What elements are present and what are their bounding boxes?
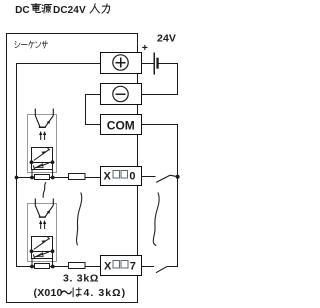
- LED D1b: [33, 163, 49, 169]
- resistor R2 (series 3.3k): [69, 174, 86, 180]
- wire: COM terminal to right rail: [142, 125, 178, 268]
- light arrows unit 2: [39, 220, 46, 229]
- terminal box +: [101, 53, 142, 74]
- wire: input row for X0: [16, 177, 100, 179]
- label: title "DC電源DC24V入力": [15, 3, 110, 16]
- terminal box COM: [101, 115, 142, 135]
- LED D2b: [33, 252, 49, 258]
- svg-text:3. 3kΩ: 3. 3kΩ: [63, 272, 99, 284]
- continuation squiggle middle (between input rows): [77, 193, 82, 246]
- LED D2a: [34, 237, 50, 250]
- switch S1 (X0 input): [141, 176, 155, 178]
- resistor R1 (parallel, under LED box): [35, 175, 50, 180]
- svg-text:+: +: [142, 42, 148, 54]
- svg-text:24V: 24V: [157, 33, 176, 45]
- wire: LED D2 mid tap: [32, 251, 53, 253]
- LED pair D1 box: [32, 148, 53, 170]
- LED pair D2 box: [32, 237, 53, 259]
- wire: internal rail from + terminal down left side: [17, 64, 101, 267]
- terminal box X0: [101, 167, 142, 186]
- wire: LED D2 box side extensions to row: [31, 259, 33, 267]
- wire: LED D1 box side extensions to row: [31, 170, 33, 178]
- phototransistor Q2: [35, 198, 53, 217]
- svg-text:COM: COM: [107, 119, 135, 133]
- junction dots row X0: [30, 176, 34, 180]
- wire: + terminal to battery: [141, 63, 154, 65]
- phototransistor Q1: [35, 109, 53, 128]
- light arrows unit 1: [39, 131, 46, 140]
- junction dots on LED D1 box sides: [30, 160, 34, 164]
- svg-text:X: X: [104, 171, 112, 183]
- resistor R4 (series 3.3k): [69, 263, 86, 269]
- optocoupler unit 1 package: [28, 115, 57, 173]
- label: シーケンサ: [15, 41, 48, 48]
- wire: minus terminal to COM internal link: [86, 95, 101, 125]
- junction dots on LED D2 box sides: [30, 249, 34, 253]
- battery BT1 24V: [153, 53, 155, 75]
- junction: rail / row X0: [15, 176, 19, 180]
- continuation squiggle right (between switches): [153, 193, 159, 246]
- svg-text:(X010: (X010: [34, 287, 63, 299]
- wire: battery to - terminal loop: [142, 64, 178, 95]
- PLC enclosure box (sequencer): [7, 34, 138, 303]
- wire: LED D1 mid tap: [32, 162, 53, 164]
- LED D1a: [34, 148, 50, 161]
- svg-text:DC: DC: [15, 5, 30, 16]
- optocoupler unit 2 package: [28, 204, 57, 262]
- terminal box -: [101, 84, 142, 105]
- continuation squiggle left (between opto units): [43, 182, 46, 198]
- svg-text:4. 3kΩ): 4. 3kΩ): [84, 287, 127, 299]
- switch S2 (X7 input): [142, 266, 155, 268]
- junction dots row X7: [30, 265, 34, 269]
- svg-text:7: 7: [130, 260, 136, 272]
- wire: input row for X7: [16, 266, 100, 268]
- terminal box X7: [101, 256, 142, 276]
- resistor R3 (parallel, under LED box 2): [35, 264, 50, 269]
- svg-text:0: 0: [129, 171, 135, 183]
- svg-text:DC24V: DC24V: [53, 5, 86, 16]
- svg-text:X: X: [104, 261, 112, 273]
